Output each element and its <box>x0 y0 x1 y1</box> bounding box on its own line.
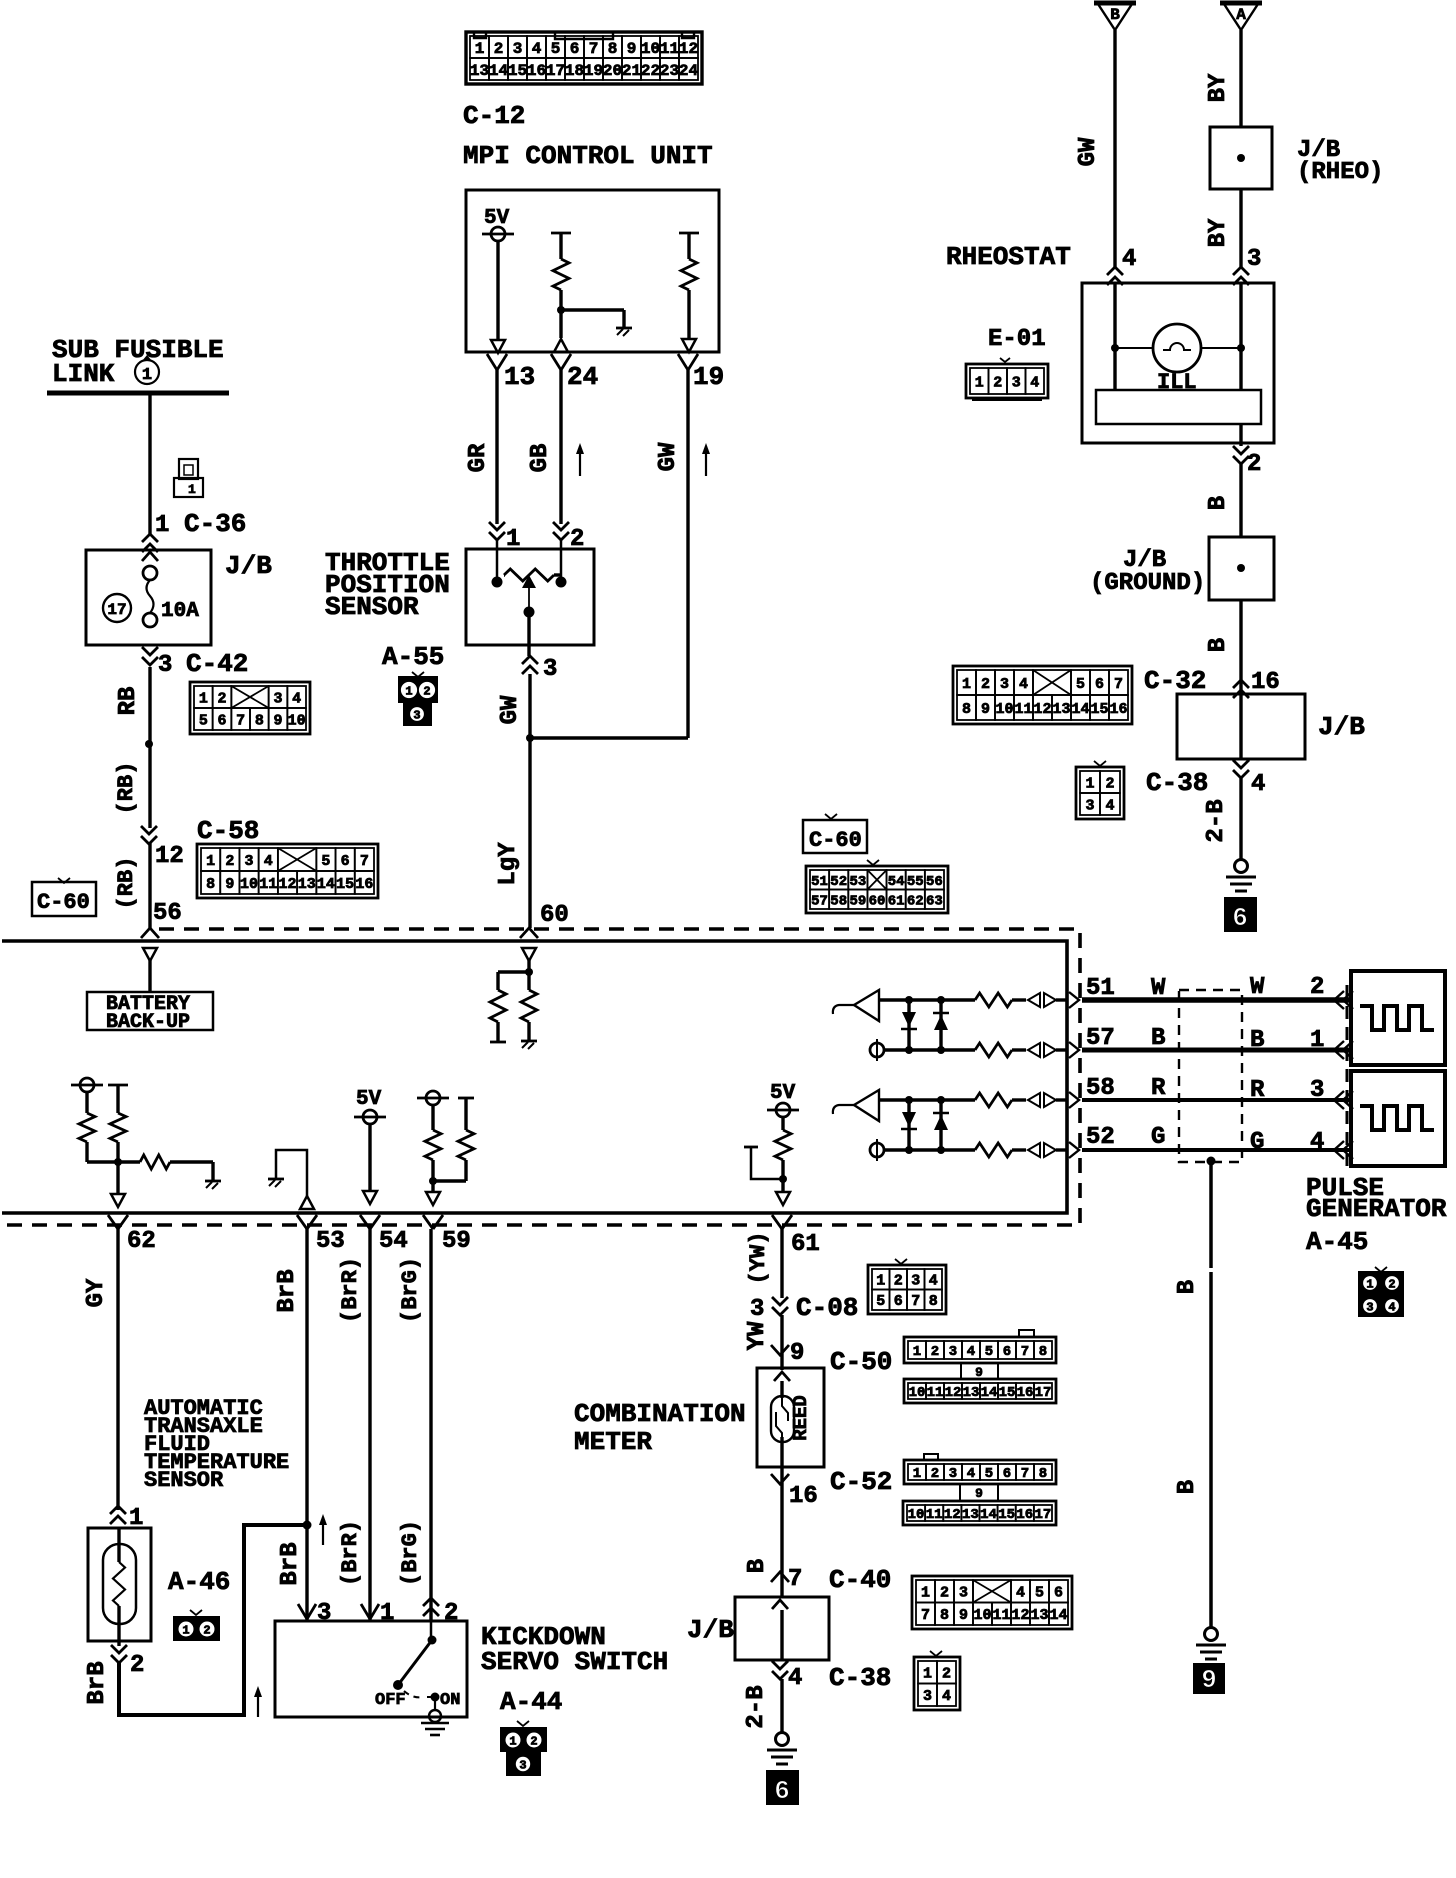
label FLUID <box>144 1432 210 1457</box>
svg-text:12: 12 <box>1033 701 1051 718</box>
label B (rheostat out) <box>1205 496 1232 510</box>
resistor meter R2 <box>521 990 537 1022</box>
wire 2-B (to ground) <box>1239 778 1242 860</box>
wire 2-B (bottom to ground) <box>780 1679 783 1733</box>
svg-text:8: 8 <box>206 876 215 893</box>
reed contacts <box>776 1398 788 1443</box>
junction bulb right <box>1237 344 1245 352</box>
label J/B (right lower) <box>1318 712 1365 742</box>
right pulldown bottom lead <box>527 1022 530 1040</box>
svg-text:B: B <box>744 1559 771 1573</box>
fuse 17 bottom terminal <box>143 613 157 627</box>
svg-text:16: 16 <box>1109 701 1127 718</box>
svg-text:(YW): (YW) <box>746 1232 771 1285</box>
svg-text:18: 18 <box>565 62 584 80</box>
connector chevron meter pin 60 <box>520 928 538 938</box>
svg-text:9: 9 <box>959 1607 968 1624</box>
label BATTERY <box>106 993 190 1016</box>
pin label 3 C-08 <box>750 1293 858 1323</box>
wire 60 internal <box>527 960 530 972</box>
svg-text:3: 3 <box>513 40 523 58</box>
wire R8 bottom lead <box>781 1160 784 1179</box>
wire R3 bottom <box>87 1142 118 1162</box>
connector chevron TPS pin 2 <box>553 522 569 540</box>
connector A-46 icon <box>173 1610 220 1641</box>
label RHEOSTAT <box>946 242 1071 272</box>
junction inside J/B ground <box>1237 564 1245 572</box>
terminal triangle meter 60 <box>522 948 536 961</box>
svg-text:3: 3 <box>959 1585 968 1602</box>
resistor meter R6 <box>425 1130 441 1160</box>
svg-text:LINK: LINK <box>52 359 115 389</box>
svg-text:51: 51 <box>811 874 828 890</box>
pin label 3 (TPS) <box>543 656 557 683</box>
svg-text:(BrG): (BrG) <box>398 1257 423 1323</box>
TPS potentiometer track <box>504 569 561 581</box>
wire 62 net left lead <box>85 1092 88 1113</box>
direction arrow (GB) <box>576 443 584 476</box>
svg-text:19: 19 <box>693 362 724 392</box>
wire R4 bottom lead <box>116 1142 119 1162</box>
svg-text:10: 10 <box>909 1385 926 1401</box>
pin label 57 <box>1086 1025 1115 1052</box>
svg-text:C-38: C-38 <box>1146 768 1208 798</box>
svg-text:16: 16 <box>355 876 373 893</box>
left pulldown bottom lead <box>496 1022 499 1041</box>
wire from fusible link <box>148 393 151 534</box>
label BY upper <box>1205 73 1232 102</box>
resistor meter R8 <box>775 1130 791 1160</box>
label BrB upper <box>274 1269 301 1312</box>
svg-text:2: 2 <box>423 684 430 698</box>
chassis ground (pulse gen shield) <box>1196 1628 1226 1660</box>
terminal triangle meter 59 <box>426 1192 440 1205</box>
wire pin53 internal hook <box>276 1150 307 1196</box>
wire (YW) 61 down <box>780 1229 783 1298</box>
pin label 54 <box>379 1228 408 1255</box>
svg-text:2: 2 <box>981 676 990 693</box>
connector chevron TPS pin 3 <box>522 656 538 674</box>
wire 59 left lead <box>431 1105 434 1130</box>
svg-text:3: 3 <box>949 1466 957 1482</box>
label A-46 <box>168 1567 230 1597</box>
wire GB (MPI 24 to TPS 2) <box>559 370 562 524</box>
resistor R-b (on pin 19) <box>681 259 697 290</box>
svg-text:1: 1 <box>876 1273 885 1290</box>
svg-text:56: 56 <box>926 874 943 890</box>
svg-text:1: 1 <box>913 1466 921 1482</box>
pin 19 receptacle <box>678 354 698 370</box>
pin label 16 <box>789 1483 818 1510</box>
T-bar top of hook (pin61) <box>744 1146 758 1149</box>
label B (to C-32) <box>1205 638 1232 652</box>
svg-text:1: 1 <box>380 1600 394 1627</box>
chassis ground (speedo circuit) <box>767 1733 797 1765</box>
svg-text:B: B <box>1205 638 1232 652</box>
svg-text:10A: 10A <box>161 600 199 623</box>
T-bar top of meter R7 <box>458 1097 474 1100</box>
pin 24 receptacle <box>551 354 571 370</box>
svg-text:20: 20 <box>603 62 622 80</box>
pin label 61 <box>791 1231 820 1258</box>
wire R-b top lead <box>687 233 690 259</box>
label J/B (rheo) <box>1297 137 1340 164</box>
svg-text:14: 14 <box>1049 1607 1067 1624</box>
svg-text:12: 12 <box>944 1507 961 1523</box>
pin label 53 <box>316 1228 345 1255</box>
combination meter dashed outline <box>2 929 1080 1225</box>
ground (meter internal, pin60 net) <box>521 1041 537 1049</box>
label COMBINATION <box>574 1399 746 1429</box>
svg-text:3: 3 <box>949 1344 957 1360</box>
svg-text:1: 1 <box>962 676 971 693</box>
label GR <box>465 443 492 472</box>
pin label 4 C-38 (bottom) <box>788 1663 891 1693</box>
label GB <box>527 444 554 473</box>
label (BrR) mid <box>338 1520 363 1586</box>
label (RB) lower <box>114 857 139 910</box>
resistor meter R1 <box>490 990 506 1022</box>
svg-text:5: 5 <box>1035 1585 1044 1602</box>
svg-text:13: 13 <box>298 876 316 893</box>
wire BY (J/B to rheostat 3) <box>1239 189 1242 268</box>
illumination bulb ILL <box>1153 324 1201 372</box>
reed capsule <box>771 1396 794 1442</box>
svg-text:COMBINATION: COMBINATION <box>574 1399 746 1429</box>
resistor meter R5 <box>140 1155 170 1169</box>
svg-text:12: 12 <box>1011 1607 1029 1624</box>
svg-text:17: 17 <box>107 601 126 619</box>
terminal triangle meter 62 <box>111 1194 125 1207</box>
fuse 17 top terminal <box>143 566 157 580</box>
svg-text:(RB): (RB) <box>114 857 139 910</box>
label A-44 <box>500 1687 562 1717</box>
wire W (meter 51 to pulse gen 2) <box>1082 997 1351 1003</box>
svg-text:A-44: A-44 <box>500 1687 562 1717</box>
svg-text:8: 8 <box>940 1607 949 1624</box>
svg-text:BrB: BrB <box>84 1661 111 1704</box>
junction block J/B box (fuse 17) <box>86 550 211 645</box>
svg-text:4: 4 <box>1310 1129 1324 1156</box>
svg-text:22: 22 <box>641 62 660 80</box>
ATF thermistor element <box>113 1562 125 1606</box>
pin label 2 (TPS) <box>570 526 584 553</box>
wire 61 net lead <box>781 1117 784 1130</box>
wire bulb left <box>1115 347 1153 349</box>
terminal triangle meter 61 <box>776 1192 790 1205</box>
svg-text:60: 60 <box>540 902 569 929</box>
svg-text:(BrR): (BrR) <box>338 1257 363 1323</box>
svg-text:4: 4 <box>1019 676 1028 693</box>
pin label 3 (pulse gen) <box>1310 1077 1324 1104</box>
svg-text:A-45: A-45 <box>1306 1227 1368 1257</box>
pin 13 receptacle <box>487 354 507 370</box>
svg-text:13: 13 <box>962 1507 979 1523</box>
wire GY (62 to ATF sensor) <box>116 1229 119 1510</box>
junction bulb left <box>1111 344 1119 352</box>
label OFF <box>375 1691 406 1710</box>
connector C-38 pin grid (bottom) <box>914 1651 960 1710</box>
label J/B (bottom) <box>687 1615 734 1645</box>
svg-text:7: 7 <box>921 1607 930 1624</box>
power symbol (pin 61 net) <box>767 1103 799 1117</box>
reed wire lower <box>780 1437 783 1467</box>
connector chevron C-58 pin 12 <box>141 826 157 844</box>
svg-text:1: 1 <box>405 684 412 698</box>
label R right <box>1250 1077 1265 1104</box>
wire (RB) to meter 56 <box>148 842 151 928</box>
svg-text:11: 11 <box>259 876 277 893</box>
direction arrow (BrB return) <box>254 1686 262 1717</box>
page connector triangle B <box>1094 3 1136 30</box>
svg-text:54: 54 <box>379 1228 408 1255</box>
svg-text:58: 58 <box>1086 1075 1115 1102</box>
svg-text:3: 3 <box>1247 246 1261 273</box>
connector chevron C-40 pin 7 <box>771 1572 789 1582</box>
svg-text:1: 1 <box>1366 1277 1373 1291</box>
square wave symbol 2 <box>1360 1106 1434 1130</box>
junction R-a / ground branch <box>557 306 565 314</box>
svg-text:5: 5 <box>1076 676 1085 693</box>
svg-text:5V: 5V <box>770 1082 796 1105</box>
svg-text:5: 5 <box>876 1293 885 1310</box>
rheostat wire 3 internal <box>1239 284 1242 390</box>
svg-text:11: 11 <box>1014 701 1032 718</box>
svg-text:4: 4 <box>967 1344 975 1360</box>
svg-text:A-55: A-55 <box>382 642 444 672</box>
ATF sensor box <box>88 1528 151 1641</box>
label R left <box>1151 1075 1166 1102</box>
svg-text:17: 17 <box>1035 1385 1052 1401</box>
svg-text:10: 10 <box>240 876 258 893</box>
wire GW (MPI 19 down) <box>686 370 689 738</box>
junction block J/B (GROUND) box <box>1209 537 1274 600</box>
svg-text:2: 2 <box>894 1273 903 1290</box>
svg-text:C-38: C-38 <box>829 1663 891 1693</box>
svg-text:2: 2 <box>940 1585 949 1602</box>
wire to left pulldown <box>498 970 529 973</box>
svg-text:3: 3 <box>923 1688 932 1705</box>
svg-text:3: 3 <box>1085 797 1094 814</box>
direction arrow (BrB mid) <box>319 1514 327 1545</box>
wire BrB (53 down) <box>305 1229 308 1621</box>
power symbol (pin 54 net) <box>354 1110 386 1124</box>
label YW <box>744 1321 771 1350</box>
chevron inside reed box <box>774 1372 790 1381</box>
wire 54 internal <box>368 1124 371 1191</box>
svg-text:13: 13 <box>1030 1607 1048 1624</box>
svg-text:R: R <box>1250 1077 1265 1104</box>
svg-text:11: 11 <box>992 1607 1010 1624</box>
svg-text:(RB): (RB) <box>114 762 139 815</box>
circled 1 (fusible link no.) <box>135 355 159 385</box>
svg-text:4: 4 <box>1016 1585 1025 1602</box>
svg-text:6: 6 <box>894 1293 903 1310</box>
svg-text:2: 2 <box>993 374 1002 391</box>
svg-text:61: 61 <box>888 893 905 909</box>
pin label 56 <box>153 900 182 927</box>
connector C-40 pin grid <box>912 1576 1072 1629</box>
svg-text:1: 1 <box>975 374 984 391</box>
svg-text:4: 4 <box>1105 797 1114 814</box>
svg-text:57: 57 <box>811 893 828 909</box>
svg-text:BrB: BrB <box>277 1542 304 1585</box>
connector C-60 label box (left) <box>32 878 96 916</box>
svg-text:15: 15 <box>998 1507 1015 1523</box>
connector chevron C-08 pin 3 <box>772 1297 788 1315</box>
connector C-38 pin grid (right) <box>1076 761 1124 819</box>
svg-text:16: 16 <box>1251 669 1280 696</box>
connector E-01 icon <box>966 358 1048 400</box>
svg-text:16: 16 <box>1016 1507 1033 1523</box>
svg-text:GW: GW <box>1075 137 1102 166</box>
label SENSOR (ATF) <box>144 1468 224 1493</box>
speedometer reed switch box <box>757 1368 824 1467</box>
svg-text:15: 15 <box>336 876 354 893</box>
wire BrB return path <box>119 1525 307 1715</box>
svg-text:4: 4 <box>967 1466 975 1482</box>
meter pin 62 receptacle <box>108 1215 128 1229</box>
svg-text:C-42: C-42 <box>186 649 248 679</box>
wire G (meter 52 to pulse gen 4) <box>1082 1148 1351 1152</box>
label (YW) <box>746 1232 771 1285</box>
svg-text:4: 4 <box>532 40 542 58</box>
wire B (meter 57 to pulse gen 1) <box>1082 1048 1351 1053</box>
label (RB) upper <box>114 762 139 815</box>
svg-text:16: 16 <box>527 62 546 80</box>
svg-text:5V: 5V <box>356 1088 382 1111</box>
connector chevron C-36 <box>142 534 158 552</box>
svg-text:62: 62 <box>907 893 924 909</box>
svg-text:2: 2 <box>1310 974 1324 1001</box>
svg-text:SERVO SWITCH: SERVO SWITCH <box>481 1647 668 1677</box>
svg-text:C-08: C-08 <box>796 1293 858 1323</box>
wire (BrG) (59 down) <box>429 1229 432 1621</box>
label 5V (MPI internal supply) <box>484 207 510 230</box>
wire through J/B <box>1239 694 1242 759</box>
svg-text:GY: GY <box>83 1278 110 1307</box>
svg-text:5: 5 <box>985 1344 993 1360</box>
svg-text:E-01: E-01 <box>988 326 1046 353</box>
svg-text:9: 9 <box>790 1340 804 1367</box>
connector chevron C-38 pin 4 <box>1233 760 1249 778</box>
connector chevron kickdown pin 2 <box>423 1598 439 1616</box>
svg-text:J/B: J/B <box>687 1615 734 1645</box>
label TEMPERATURE <box>144 1450 289 1475</box>
svg-text:3: 3 <box>273 690 282 707</box>
wire R5 to ground <box>170 1162 213 1180</box>
svg-text:19: 19 <box>584 62 603 80</box>
connector C-60 label box (middle) <box>803 814 867 853</box>
pin label 51 <box>1086 975 1115 1002</box>
terminal triangle pin 19 (output) <box>682 339 696 352</box>
TPS wiper (filled triangle) <box>522 575 536 588</box>
svg-text:6: 6 <box>1054 1585 1063 1602</box>
pin label 59 <box>442 1228 471 1255</box>
connector chevron C-38 pin 4 (bottom) <box>772 1661 788 1679</box>
svg-text:15: 15 <box>999 1385 1016 1401</box>
junction inside J/B rheo <box>1237 154 1245 162</box>
junction meter-60 node <box>525 968 533 976</box>
svg-text:C-52: C-52 <box>830 1467 892 1497</box>
T-bar top of meter R4 <box>108 1084 128 1087</box>
open end T-bar <box>490 1041 506 1044</box>
svg-text:1: 1 <box>155 512 169 539</box>
svg-text:9: 9 <box>1201 1665 1217 1695</box>
left pulldown lead <box>496 972 499 990</box>
resistor meter R4 <box>110 1113 126 1142</box>
connector C-50 pin grid <box>904 1330 1056 1403</box>
svg-text:8: 8 <box>962 701 971 718</box>
svg-text:14: 14 <box>980 1507 997 1523</box>
svg-text:B: B <box>1205 496 1232 510</box>
kickdown switch common node <box>428 1621 437 1645</box>
svg-text:RB: RB <box>115 687 142 716</box>
connector A-44 icon <box>500 1721 547 1776</box>
TPS pin 1 node <box>492 539 503 588</box>
label C-58 <box>197 816 259 846</box>
svg-text:21: 21 <box>622 62 641 80</box>
svg-text:17: 17 <box>546 62 565 80</box>
svg-text:METER: METER <box>574 1427 652 1457</box>
connector chevron meter pin 16 <box>771 1474 789 1484</box>
switch travel dashed arc <box>404 1691 424 1697</box>
svg-text:5: 5 <box>551 40 561 58</box>
pulse generator box 2 <box>1351 1071 1445 1166</box>
pin label 4 C-38 <box>1146 768 1265 798</box>
TPS wiper wire <box>528 588 530 612</box>
connector C-36 icon <box>174 459 203 497</box>
wire GW horizontal from pin19 <box>530 736 688 739</box>
svg-text:5: 5 <box>321 853 330 870</box>
label BrB (ATF return) <box>84 1661 111 1704</box>
svg-text:4: 4 <box>942 1688 951 1705</box>
label G right <box>1250 1129 1264 1156</box>
label ILL <box>1157 370 1197 395</box>
svg-text:24: 24 <box>567 362 598 392</box>
pin label 4 (pulse gen) <box>1310 1129 1324 1156</box>
junction block J/B (RHEO) box <box>1210 127 1272 189</box>
svg-text:2: 2 <box>444 1600 458 1627</box>
svg-text:6: 6 <box>217 712 226 729</box>
pin label 2 (ATF) <box>130 1652 144 1679</box>
MPI control unit box U1 <box>466 190 719 352</box>
label BACK-UP <box>106 1011 190 1034</box>
svg-text:(GROUND): (GROUND) <box>1090 570 1205 597</box>
label J/B (ground) <box>1123 547 1166 574</box>
svg-text:J/B: J/B <box>1318 712 1365 742</box>
connector chevron pulse gen pin 3 <box>1334 1091 1353 1109</box>
svg-text:10: 10 <box>288 712 306 729</box>
svg-text:6: 6 <box>1003 1344 1011 1360</box>
connector C-60 pin grid <box>806 860 948 913</box>
svg-text:3: 3 <box>317 1600 331 1627</box>
svg-text:2: 2 <box>217 690 226 707</box>
svg-text:C-60: C-60 <box>37 890 90 915</box>
label A-45 <box>1306 1227 1368 1257</box>
svg-text:2: 2 <box>1247 451 1261 478</box>
svg-text:1: 1 <box>923 1666 932 1683</box>
svg-text:3: 3 <box>911 1273 920 1290</box>
svg-text:12: 12 <box>278 876 296 893</box>
wire BY (A to J/B rheo) <box>1239 30 1242 127</box>
label MPI CONTROL UNIT <box>463 141 713 171</box>
svg-text:8: 8 <box>929 1293 938 1310</box>
wire GR (MPI 13 to TPS 1) <box>495 370 498 524</box>
svg-text:B: B <box>1250 1027 1264 1054</box>
label TRANSAXLE <box>144 1414 263 1439</box>
svg-text:7: 7 <box>1114 676 1123 693</box>
